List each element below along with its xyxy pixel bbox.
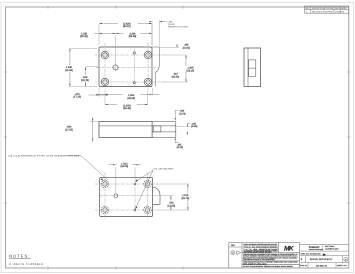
small hole upper — [133, 52, 135, 54]
dimension .465 right upper — [160, 43, 191, 49]
svg-text:N/A: N/A — [231, 244, 235, 247]
centerlines bottom view — [95, 173, 156, 221]
plate top view outline — [99, 47, 152, 87]
side view body — [99, 122, 152, 138]
counterbore hole bottom view top-left — [101, 180, 109, 188]
title block frame — [229, 243, 349, 269]
svg-text:NOTES:: NOTES: — [9, 254, 31, 259]
svg-text:STANLEY: STANLEY — [309, 246, 320, 249]
dimension 1.305 right — [161, 55, 197, 82]
tapped hole upper — [134, 183, 136, 185]
svg-text:[25.78]: [25.78] — [182, 197, 190, 200]
svg-text:SPATIAL SETUP BOLT: SPATIAL SETUP BOLT — [310, 258, 333, 261]
plate bottom view outline — [100, 177, 153, 216]
svg-text:REV: REV — [305, 7, 310, 10]
svg-text:[3.56]: [3.56] — [191, 125, 197, 128]
right side view inner line — [247, 48, 249, 87]
svg-text:[59.56]: [59.56] — [129, 35, 137, 38]
plunger phantom outline right side — [152, 47, 160, 87]
part no row — [300, 253, 349, 257]
counterbore hole top-right — [144, 51, 152, 59]
side view plunger — [152, 126, 176, 137]
svg-text:RELEASED FOR PROD: RELEASED FOR PROD — [312, 11, 333, 14]
svg-text:[10.54]: [10.54] — [172, 75, 180, 78]
svg-text:MASTER PLANS: MASTER PLANS — [325, 247, 339, 250]
dimension 1.015 bottom view right — [156, 184, 193, 210]
dimension .465 retracts flush — [150, 20, 189, 46]
svg-text:[41.66]: [41.66] — [65, 69, 73, 72]
svg-text:1) IDEA IS FLIPPABLE.: 1) IDEA IS FLIPPABLE. — [9, 263, 45, 266]
side view flange top — [152, 122, 176, 138]
svg-text:APPD: APPD — [341, 7, 347, 10]
legal paragraph — [243, 253, 298, 268]
counterbore hole bottom-right — [144, 78, 152, 86]
dimension 1.950 bottom — [96, 88, 160, 100]
svg-text:DATE: DATE — [335, 7, 341, 10]
center hole bottom view — [114, 194, 118, 198]
projection symbol cell — [229, 244, 242, 255]
svg-text:[34.31]: [34.31] — [123, 25, 131, 28]
svg-text:[26.29]: [26.29] — [80, 35, 88, 38]
svg-text:[11.81]: [11.81] — [168, 23, 175, 26]
revision table top right — [305, 6, 349, 14]
svg-text:[11.81]: [11.81] — [183, 46, 190, 49]
dimension 1.920 top — [99, 22, 152, 45]
dimension .505 bottom view right — [153, 196, 178, 210]
tolerance text cell — [244, 243, 278, 254]
svg-text:[20.78]: [20.78] — [81, 79, 89, 82]
svg-text:PART NO. 40-0231-001: PART NO. 40-0231-001 — [301, 253, 321, 256]
tapped hole callout leader — [135, 168, 174, 210]
clearance hole callout leader — [8, 155, 107, 182]
scale sheet row — [300, 263, 348, 268]
right side view outline — [244, 48, 261, 87]
dimension 1.035 — [80, 32, 115, 62]
side view step line — [99, 125, 152, 127]
svg-text:[17.15]: [17.15] — [73, 96, 81, 99]
tapped hole lower — [134, 209, 136, 211]
centerlines top view — [95, 43, 162, 91]
counterbore hole bottom view bottom-right — [144, 206, 152, 214]
svg-text:#8 CLEARANCE FOR #1/4-20UNC OR: #8 CLEARANCE FOR #1/4-20UNC OR M4 — [8, 155, 80, 158]
dimension .165 side right bottom — [175, 138, 184, 150]
notes heading — [9, 254, 31, 259]
counterbore hole bottom-left — [101, 78, 109, 86]
svg-text:[17.53]: [17.53] — [65, 129, 73, 132]
svg-text:[46.46]: [46.46] — [123, 107, 131, 110]
right side view slot — [249, 60, 256, 77]
dimension .415 right lower — [172, 73, 180, 79]
dimension .690 side left — [65, 117, 99, 143]
dimension 1.640 left — [63, 48, 98, 86]
svg-text:[12.83]: [12.83] — [168, 204, 176, 207]
dimension 1.815 bottom — [105, 91, 148, 111]
dimension .818 left inner — [79, 67, 100, 87]
svg-text:100 SEC-01: 100 SEC-01 — [316, 265, 328, 268]
dimension .140 side right mid — [176, 122, 198, 134]
svg-text:[4.19]: [4.19] — [177, 146, 183, 149]
svg-text:[49.53]: [49.53] — [127, 97, 135, 100]
dimension .710 bottom view top — [109, 162, 142, 193]
svg-text:[33.15]: [33.15] — [187, 69, 195, 72]
company cell — [300, 245, 349, 252]
small hole lower — [133, 82, 135, 84]
center hole top view — [113, 65, 118, 70]
plunger housing tab right — [153, 187, 160, 204]
dimension 2.345 — [116, 32, 153, 39]
counterbore hole top-left — [101, 51, 109, 59]
svg-text:[8.76]: [8.76] — [180, 112, 186, 115]
svg-text:[18.03]: [18.03] — [121, 165, 129, 168]
note 1 — [9, 263, 45, 266]
dimension .675 bottom left — [73, 88, 107, 99]
svg-text:Assembly Technologies: Assembly Technologies — [309, 249, 324, 251]
svg-text:RETRACTS FLUSH: RETRACTS FLUSH — [168, 26, 188, 29]
counterbore hole bottom view bottom-left — [101, 206, 109, 214]
title row — [300, 256, 349, 263]
svg-text:#4 #8-32UNC: #4 #8-32UNC — [153, 168, 174, 171]
counterbore hole bottom view top-right — [144, 180, 152, 188]
svg-text:DESCRIPTION: DESCRIPTION — [312, 7, 334, 10]
MK logo — [284, 246, 295, 253]
dimension .345 side right top — [175, 110, 186, 121]
